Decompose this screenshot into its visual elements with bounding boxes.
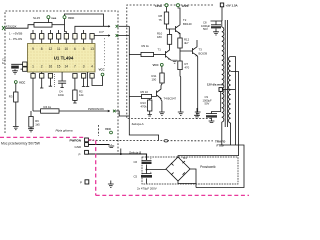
svg-text:470: 470 — [185, 66, 190, 70]
terminal 12V — [219, 88, 222, 92]
wire upper L feed — [65, 14, 104, 26]
terminal VCC pull-up — [110, 131, 113, 134]
svg-text:R3: R3 — [9, 95, 13, 99]
transformer TR1 secondary — [229, 57, 231, 124]
resistor R7 — [178, 61, 182, 70]
svg-text:1n: 1n — [2, 61, 6, 65]
wire junction stub — [120, 149, 122, 155]
svg-text:Prostownik: Prostownik — [200, 165, 216, 169]
junction C6 top — [146, 169, 148, 171]
pins below IC — [31, 74, 94, 79]
ground R7 — [178, 112, 184, 115]
svg-text:P: P — [80, 181, 82, 185]
svg-text:PWRON: PWRON — [70, 139, 82, 143]
capacitor C5 plate — [141, 175, 152, 178]
op-amp U1 TL494 pin header squares top — [31, 34, 94, 40]
resistor R10 — [167, 35, 171, 45]
wire output bus to PWRON/OK — [33, 110, 110, 112]
diode ticks bridge — [171, 161, 185, 175]
resistor R12 — [178, 38, 182, 48]
svg-text:12V dla went.: 12V dla went. — [207, 83, 224, 87]
pink line Moc przetwornicy — [0, 136, 85, 138]
svg-text:C5: C5 — [134, 174, 138, 178]
svg-text:5: 5 — [83, 47, 85, 51]
svg-text:2: 2 — [41, 65, 43, 69]
transistor T2 — [176, 24, 181, 39]
connector arrow+X PWRON/OK — [108, 110, 110, 112]
svg-text:Moc przetwornicy 50/75W: Moc przetwornicy 50/75W — [1, 141, 41, 145]
svg-text:1 - +5VSB: 1 - +5VSB — [9, 32, 22, 36]
wire secondary top tap down right rail — [231, 57, 236, 146]
svg-text:Sekcja A: Sekcja A — [132, 122, 144, 126]
svg-text:1k5: 1k5 — [35, 123, 40, 127]
wire X link into right box — [118, 25, 129, 27]
wire pin risers — [33, 30, 84, 34]
resistor R6 — [29, 117, 33, 128]
dashed separator to rectifier section — [89, 139, 213, 142]
bridge rectifier B1 — [166, 157, 190, 181]
svg-text:470k: 470k — [141, 105, 148, 109]
svg-text:7: 7 — [74, 65, 76, 69]
capacitor C4 — [58, 72, 66, 88]
svg-text:SL15: SL15 — [33, 16, 40, 20]
svg-text:R5 10: R5 10 — [141, 90, 149, 94]
svg-text:VCC: VCC — [153, 63, 160, 67]
pins left of IC — [23, 62, 27, 71]
wire T2 collector to 12Vb terminal — [178, 7, 180, 23]
transformer TR1 primary — [221, 21, 223, 27]
connector pin PWRON — [85, 138, 89, 142]
resistor R2 lead — [73, 78, 76, 103]
wire C/T line — [94, 35, 129, 37]
svg-text:100n: 100n — [58, 93, 65, 97]
wire VCC loop right of IC — [92, 76, 103, 86]
resistor R13 — [148, 100, 152, 111]
capacitor C6 — [142, 160, 152, 173]
terminal vee — [47, 16, 50, 19]
wire tap to 12V terminal — [223, 89, 236, 91]
svg-text:U1 TL494: U1 TL494 — [54, 55, 74, 60]
svg-text:Płyta główna: Płyta główna — [56, 129, 73, 133]
wire secondary link — [230, 130, 232, 145]
wire pin4 dotted stub — [54, 74, 56, 88]
svg-text:2x 470µF 200V: 2x 470µF 200V — [137, 186, 157, 190]
wire secondary mid tap rail — [231, 72, 239, 146]
wire R5 to base T4 — [129, 96, 156, 98]
svg-text:12Vb: 12Vb — [182, 4, 189, 8]
svg-text:4: 4 — [91, 65, 93, 69]
junction on P1 bus — [120, 153, 122, 155]
wire bridge right output — [190, 169, 196, 188]
transistor T4 — [157, 86, 162, 101]
svg-text:P: P — [79, 152, 81, 156]
wire vee terminal drop — [47, 19, 49, 23]
wire C9 to ground — [209, 118, 215, 123]
svg-text:12: 12 — [49, 47, 53, 51]
terminal VCC mid-left — [14, 81, 17, 84]
wire bus P1 to rectifier caps — [88, 154, 146, 160]
resistor R4 — [41, 109, 59, 113]
ground T1 emitter — [171, 60, 177, 63]
resistor R11 leads — [161, 66, 162, 85]
wire pin stubs — [82, 72, 89, 87]
svg-text:75: 75 — [159, 18, 163, 22]
capacitor C9 — [206, 113, 217, 115]
dashed inner guide — [104, 38, 106, 66]
wire pin2 down — [40, 72, 43, 88]
capacitor C6 plate — [142, 162, 152, 164]
ground mid right — [194, 108, 200, 119]
svg-text:VCC: VCC — [19, 80, 26, 84]
svg-text:3: 3 — [83, 65, 85, 69]
transistor T1 — [166, 46, 172, 60]
ground T4 — [159, 112, 165, 115]
pink line bottom — [96, 194, 249, 196]
terminal VCC driver — [160, 63, 163, 66]
capacitor C8 — [211, 21, 221, 25]
feed-through oval on dashed separator — [164, 140, 168, 142]
resistor R1 — [34, 23, 52, 28]
svg-text:6: 6 — [74, 47, 76, 51]
wire base T1 from R9 — [154, 54, 166, 56]
wire ATX input — [5, 25, 34, 29]
svg-text:50V: 50V — [205, 102, 210, 106]
svg-text:L - PS-ON: L - PS-ON — [9, 37, 22, 41]
svg-text:8: 8 — [41, 47, 43, 51]
transformer core — [225, 20, 227, 127]
capacitor C2 left of IC — [11, 64, 22, 74]
svg-text:12Va: 12Va — [155, 4, 162, 8]
connector pin GND — [85, 143, 89, 147]
svg-text:R9 1k: R9 1k — [142, 44, 150, 48]
resistor R13 leads + ground — [148, 97, 152, 117]
wire pin7 to X link — [75, 26, 110, 33]
ground floating lower — [108, 181, 114, 188]
resistor R3 — [14, 92, 18, 102]
wire 12Va terminal to R8 — [166, 7, 168, 12]
rectifier box (Prostownik) — [142, 157, 238, 184]
wire primary bottom stub — [221, 122, 223, 145]
wire GND pin — [88, 144, 109, 146]
connector pin P1 — [85, 150, 89, 154]
wire +5V to rail — [211, 7, 223, 21]
ground GND pin — [108, 145, 114, 148]
svg-text:T1: T1 — [158, 47, 162, 51]
resistor R11 — [160, 73, 164, 83]
connector arrow+X C/T wire — [108, 34, 110, 36]
resistor R2 — [73, 90, 77, 100]
dashed enclosure right (driver section) — [127, 5, 213, 119]
svg-text:50V: 50V — [203, 27, 208, 31]
dashed enclosure left (ATX control section) — [5, 11, 118, 154]
IC U1 TL494 body — [28, 44, 96, 73]
svg-text:C6: C6 — [134, 160, 138, 164]
svg-text:4k7: 4k7 — [184, 41, 189, 45]
svg-text:VCC: VCC — [99, 67, 106, 71]
resistor R9 — [141, 52, 154, 56]
wire VCC to R3 — [15, 83, 17, 92]
wire bridge bottom — [178, 181, 196, 184]
wire caps to bridge — [147, 169, 167, 171]
wire T3 emitter to ground — [197, 57, 199, 113]
capacitor C9 plate — [206, 115, 217, 117]
pink line vertical section divider — [95, 141, 97, 196]
svg-text:13: 13 — [90, 47, 94, 51]
connector arrow+X ATX wire — [108, 25, 110, 27]
resistor R5 — [142, 94, 152, 98]
svg-text:+: + — [150, 170, 152, 174]
svg-text:12k: 12k — [79, 93, 84, 97]
wire PWRON/OK into box — [116, 111, 130, 116]
svg-text:+5V 1.5A: +5V 1.5A — [226, 3, 239, 7]
svg-text:1: 1 — [32, 65, 34, 69]
svg-text:ATX20X: ATX20X — [6, 25, 17, 29]
terminal VCC right of IC — [101, 73, 104, 76]
ground C8 — [213, 29, 219, 36]
wire R8 bottom to T2 base node — [167, 24, 170, 29]
ground T3 — [195, 112, 201, 115]
svg-text:9: 9 — [32, 47, 34, 51]
terminal 12Vb — [177, 4, 180, 7]
resistor R8 — [164, 12, 168, 24]
svg-text:14: 14 — [65, 65, 69, 69]
svg-text:16: 16 — [49, 65, 53, 69]
svg-text:BD140: BD140 — [183, 22, 192, 26]
wire pin1 down — [32, 72, 34, 111]
wire pin stubs to IC — [33, 39, 92, 44]
svg-text:+: + — [150, 157, 152, 161]
svg-text:VCC: VCC — [68, 16, 75, 20]
wire VCC terminal riser chain — [65, 19, 67, 34]
wire R3 to bus — [13, 102, 19, 130]
connector ATX — [2, 26, 5, 30]
wire R1 to VCC riser — [52, 24, 65, 26]
svg-text:FT10: FT10 — [217, 143, 224, 147]
svg-text:T4 BC547: T4 BC547 — [164, 97, 177, 101]
svg-text:BC639: BC639 — [199, 51, 208, 55]
svg-text:PWRON/OK: PWRON/OK — [88, 107, 104, 111]
capacitor C5 — [142, 174, 152, 184]
terminal 12Va — [165, 4, 168, 7]
wire T2 emitter node to T3 base — [180, 48, 193, 61]
svg-text:15: 15 — [57, 65, 61, 69]
wire R7 bottom to ground — [179, 70, 182, 112]
wire C/T into box — [129, 54, 141, 56]
transistor T3 — [193, 40, 198, 57]
wire T4 emitter to ground — [160, 100, 163, 112]
connector pin P2 — [85, 180, 89, 184]
wire vertical to separator — [129, 26, 158, 140]
terminal VCC top — [63, 16, 66, 19]
svg-text:GND: GND — [75, 145, 83, 149]
wire secondary bottom stub — [230, 123, 232, 130]
wire bridge top to secondary rail — [178, 145, 239, 157]
svg-text:11: 11 — [57, 47, 61, 51]
svg-text:vee: vee — [51, 16, 56, 20]
svg-text:Sekcja B: Sekcja B — [129, 151, 141, 155]
capacitor C8 plate — [211, 26, 221, 28]
svg-text:R4 1k: R4 1k — [44, 105, 52, 109]
wire 12V terminal down to C9 — [212, 92, 221, 114]
svg-text:100: 100 — [152, 78, 157, 82]
wire T1 collector to R10 — [169, 44, 171, 46]
wire output loop right — [196, 145, 244, 188]
terminal +5V output — [220, 3, 223, 7]
resistor R6 leads + ground — [28, 111, 34, 132]
svg-text:M1: M1 — [183, 156, 187, 160]
svg-text:10: 10 — [65, 47, 69, 51]
svg-text:VCC: VCC — [105, 127, 112, 131]
wire pin3 stub — [49, 78, 52, 86]
wire R10 top to T2 base node — [170, 29, 176, 35]
svg-text:180: 180 — [157, 35, 162, 39]
